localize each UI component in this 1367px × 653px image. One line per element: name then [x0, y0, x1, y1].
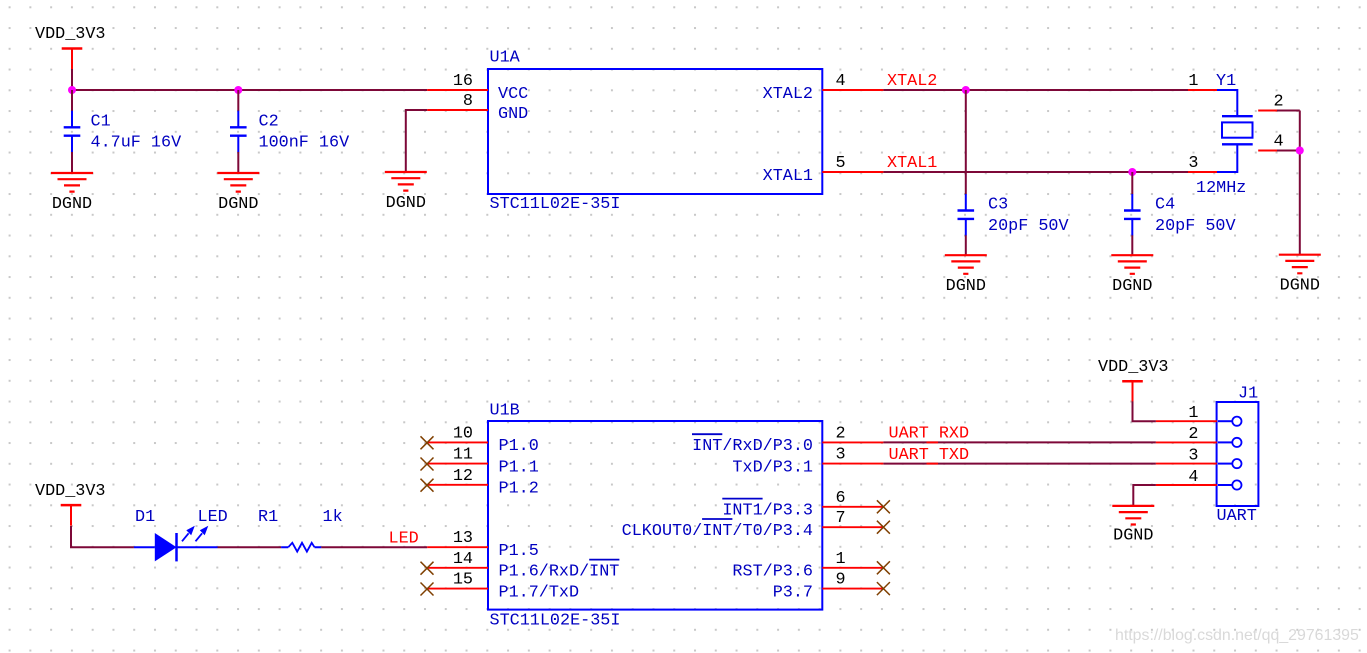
svg-text:5: 5 [836, 154, 846, 173]
wire VDD to LED [71, 526, 134, 547]
svg-text:R1: R1 [258, 508, 278, 527]
svg-text:1: 1 [1188, 404, 1198, 423]
no-connect X pin 6 [877, 500, 890, 513]
node junction at C2 [234, 86, 242, 94]
pin 7 CLKOUT0/INT/T0/P3.4 [622, 509, 884, 541]
node junction Y1 pin4 [1296, 147, 1304, 155]
svg-text:P1.7/TxD: P1.7/TxD [499, 583, 580, 602]
ground DGND (Y1) [1279, 255, 1321, 296]
pin 2 INT/RxD/P3.0 [692, 424, 883, 456]
pin 8 GND [427, 92, 528, 124]
svg-text:XTAL1: XTAL1 [763, 167, 813, 186]
wire net UART TXD [883, 463, 1156, 465]
svg-text:P1.1: P1.1 [499, 458, 539, 477]
no-connect X pin 11 [421, 458, 434, 471]
svg-text:2: 2 [1188, 425, 1198, 444]
capacitor C1 [64, 111, 181, 153]
svg-text:20pF 50V: 20pF 50V [1155, 217, 1236, 236]
svg-text:13: 13 [453, 529, 473, 548]
pin 9 P3.7 [773, 571, 884, 603]
wire net XTAL2 [883, 89, 1188, 91]
resistor R1 [258, 508, 343, 552]
svg-text:P1.2: P1.2 [499, 480, 539, 499]
pin 13 P1.5 [427, 529, 539, 561]
pin 4 of J1 [1156, 468, 1242, 490]
wire net UART RXD [883, 441, 1156, 443]
pin 3 of J1 [1156, 446, 1242, 468]
ground DGND (J1) [1112, 506, 1154, 546]
wire Y1 pin2 to vertical [1277, 110, 1300, 112]
pin 4 XTAL2 [763, 72, 884, 104]
wire VCC rail [72, 89, 427, 91]
svg-text:UART: UART [1217, 507, 1257, 526]
svg-text:UART RXD: UART RXD [889, 425, 970, 444]
wire red segment UART RXD [927, 441, 939, 443]
pin 16 VCC [427, 72, 528, 104]
svg-text:DGND: DGND [1280, 277, 1320, 296]
wire pin8 to ground [406, 110, 427, 172]
svg-text:1: 1 [836, 550, 846, 569]
svg-text:XTAL1: XTAL1 [887, 154, 937, 173]
pin 3 of Y1 [1188, 154, 1217, 173]
capacitor C4 [1124, 194, 1236, 236]
svg-text:3: 3 [1188, 154, 1198, 173]
svg-text:1k: 1k [323, 508, 343, 527]
pin 1 of Y1 [1188, 72, 1217, 91]
svg-text:TxD/P3.1: TxD/P3.1 [732, 458, 813, 477]
svg-text:15: 15 [453, 571, 473, 590]
wire Y1 case vertical to ground [1299, 111, 1301, 255]
svg-text:P3.7: P3.7 [773, 583, 813, 602]
svg-text:UART TXD: UART TXD [889, 446, 970, 465]
wire C1 upper [71, 90, 73, 111]
svg-text:INT/RxD/P3.0: INT/RxD/P3.0 [692, 437, 813, 456]
power symbol VDD_3V3 (J1) [1098, 358, 1169, 402]
svg-text:XTAL2: XTAL2 [763, 85, 813, 104]
svg-text:12: 12 [453, 467, 473, 486]
svg-text:C2: C2 [259, 113, 279, 132]
power symbol VDD_3V3 (bottom left) [35, 482, 106, 526]
svg-text:DGND: DGND [386, 194, 426, 213]
wire D1 to R1 [218, 546, 282, 548]
svg-text:100nF 16V: 100nF 16V [259, 133, 350, 152]
wire R1 to pin13 [321, 546, 427, 548]
svg-text:VDD_3V3: VDD_3V3 [35, 25, 106, 44]
svg-text:9: 9 [836, 571, 846, 590]
svg-text:20pF 50V: 20pF 50V [988, 217, 1069, 236]
pin 1 of J1 [1156, 404, 1242, 426]
svg-text:DGND: DGND [946, 277, 986, 296]
svg-text:3: 3 [1188, 446, 1198, 465]
wire XTAL2 down to C3 [965, 90, 967, 194]
svg-text:P1.6/RxD/INT: P1.6/RxD/INT [499, 563, 620, 582]
svg-text:16: 16 [453, 72, 473, 91]
op-amp U1B box [488, 402, 822, 631]
wire Y1 pin4 to vertical [1277, 150, 1300, 152]
svg-text:D1: D1 [135, 508, 155, 527]
ground DGND (C1) [51, 173, 93, 214]
pin 15 P1.7/TxD [427, 571, 579, 603]
svg-text:2: 2 [1274, 93, 1284, 112]
svg-text:4: 4 [1274, 133, 1284, 152]
pin 5 XTAL1 [763, 154, 884, 186]
ground DGND (C4) [1111, 255, 1153, 296]
svg-text:P1.0: P1.0 [499, 437, 539, 456]
no-connect X pin 14 [421, 562, 434, 575]
wire C3 lower [965, 235, 967, 255]
node junction at C1 [68, 86, 76, 94]
wire XTAL1 down to C4 [1131, 172, 1133, 194]
ground DGND (C3) [945, 255, 987, 296]
capacitor C3 [958, 194, 1069, 236]
no-connect X pin 12 [421, 479, 434, 492]
wire J1 pin4 to ground [1133, 485, 1156, 506]
svg-text:VDD_3V3: VDD_3V3 [1098, 358, 1169, 377]
pin 14 P1.6/RxD/INT [427, 550, 619, 582]
svg-text:U1B: U1B [490, 402, 520, 421]
svg-text:LED: LED [198, 508, 228, 527]
svg-text:2: 2 [836, 424, 846, 443]
svg-text:STC11L02E-35I: STC11L02E-35I [490, 195, 621, 214]
svg-text:VCC: VCC [498, 85, 528, 104]
pin 10 P1.0 [427, 424, 539, 456]
wire C2 upper [237, 90, 239, 111]
node junction XTAL1/C4 [1128, 168, 1136, 176]
diode D1 LED [134, 508, 228, 561]
wire C4 lower [1131, 235, 1133, 255]
wire red segment UART TXD [927, 463, 939, 465]
svg-text:4: 4 [1188, 468, 1198, 487]
svg-text:J1: J1 [1238, 384, 1258, 403]
svg-text:DGND: DGND [52, 195, 92, 214]
svg-text:6: 6 [836, 489, 846, 508]
svg-text:INT1/P3.3: INT1/P3.3 [722, 502, 813, 521]
pin 6 INT1/P3.3 [722, 489, 883, 521]
svg-text:DGND: DGND [1112, 277, 1152, 296]
connector J1 box [1217, 384, 1259, 525]
svg-text:11: 11 [453, 446, 473, 465]
capacitor C2 [230, 111, 349, 153]
svg-text:8: 8 [463, 92, 473, 111]
no-connect X pin 7 [877, 521, 890, 534]
svg-text:https://blog.csdn.net/qq_29761: https://blog.csdn.net/qq_29761395 [1115, 627, 1359, 644]
svg-text:C3: C3 [988, 196, 1008, 215]
no-connect X pin 9 [877, 582, 890, 595]
wire C2 lower [237, 152, 239, 173]
pin 1 RST/P3.6 [732, 550, 883, 582]
wire net XTAL1 [883, 171, 1188, 173]
ground DGND (C2) [217, 173, 259, 214]
svg-text:GND: GND [498, 105, 528, 124]
svg-text:LED: LED [389, 529, 419, 548]
svg-text:4: 4 [836, 72, 846, 91]
svg-text:10: 10 [453, 424, 473, 443]
power symbol VDD_3V3 (top left) [35, 25, 106, 69]
svg-text:3: 3 [836, 446, 846, 465]
crystal Y1 [1196, 72, 1253, 198]
pin 12 P1.2 [427, 467, 539, 499]
svg-text:1: 1 [1188, 72, 1198, 91]
svg-text:VDD_3V3: VDD_3V3 [35, 482, 106, 501]
svg-text:C4: C4 [1155, 196, 1175, 215]
svg-text:Y1: Y1 [1216, 72, 1236, 91]
pin 4 of Y1 [1258, 133, 1283, 152]
svg-text:12MHz: 12MHz [1196, 179, 1246, 198]
svg-text:RST/P3.6: RST/P3.6 [732, 563, 813, 582]
svg-text:U1A: U1A [490, 49, 521, 68]
pin 11 P1.1 [427, 446, 539, 478]
no-connect X pin 15 [421, 583, 434, 596]
pin 2 of Y1 [1258, 93, 1283, 112]
wire VDD to J1 pin1 [1133, 401, 1156, 421]
svg-text:XTAL2: XTAL2 [887, 72, 937, 91]
no-connect X pin 10 [421, 436, 434, 449]
svg-text:DGND: DGND [1113, 527, 1153, 546]
svg-text:P1.5: P1.5 [499, 542, 539, 561]
no-connect X pin 1 [877, 561, 890, 574]
node junction XTAL2/C3 [962, 86, 970, 94]
pin 3 TxD/P3.1 [732, 446, 883, 478]
svg-text:DGND: DGND [218, 195, 258, 214]
svg-text:STC11L02E-35I: STC11L02E-35I [490, 612, 621, 631]
pin 2 of J1 [1156, 425, 1242, 447]
svg-text:CLKOUT0/INT/T0/P3.4: CLKOUT0/INT/T0/P3.4 [622, 522, 813, 541]
ground DGND (U1A GND) [385, 172, 427, 213]
svg-text:C1: C1 [91, 113, 111, 132]
svg-text:4.7uF 16V: 4.7uF 16V [91, 133, 182, 152]
wire VDD_3V3 stem to VCC rail [71, 69, 73, 90]
op-amp U1A box [488, 49, 822, 215]
wire C1 lower [71, 152, 73, 173]
svg-text:7: 7 [836, 509, 846, 528]
svg-text:14: 14 [453, 550, 473, 569]
